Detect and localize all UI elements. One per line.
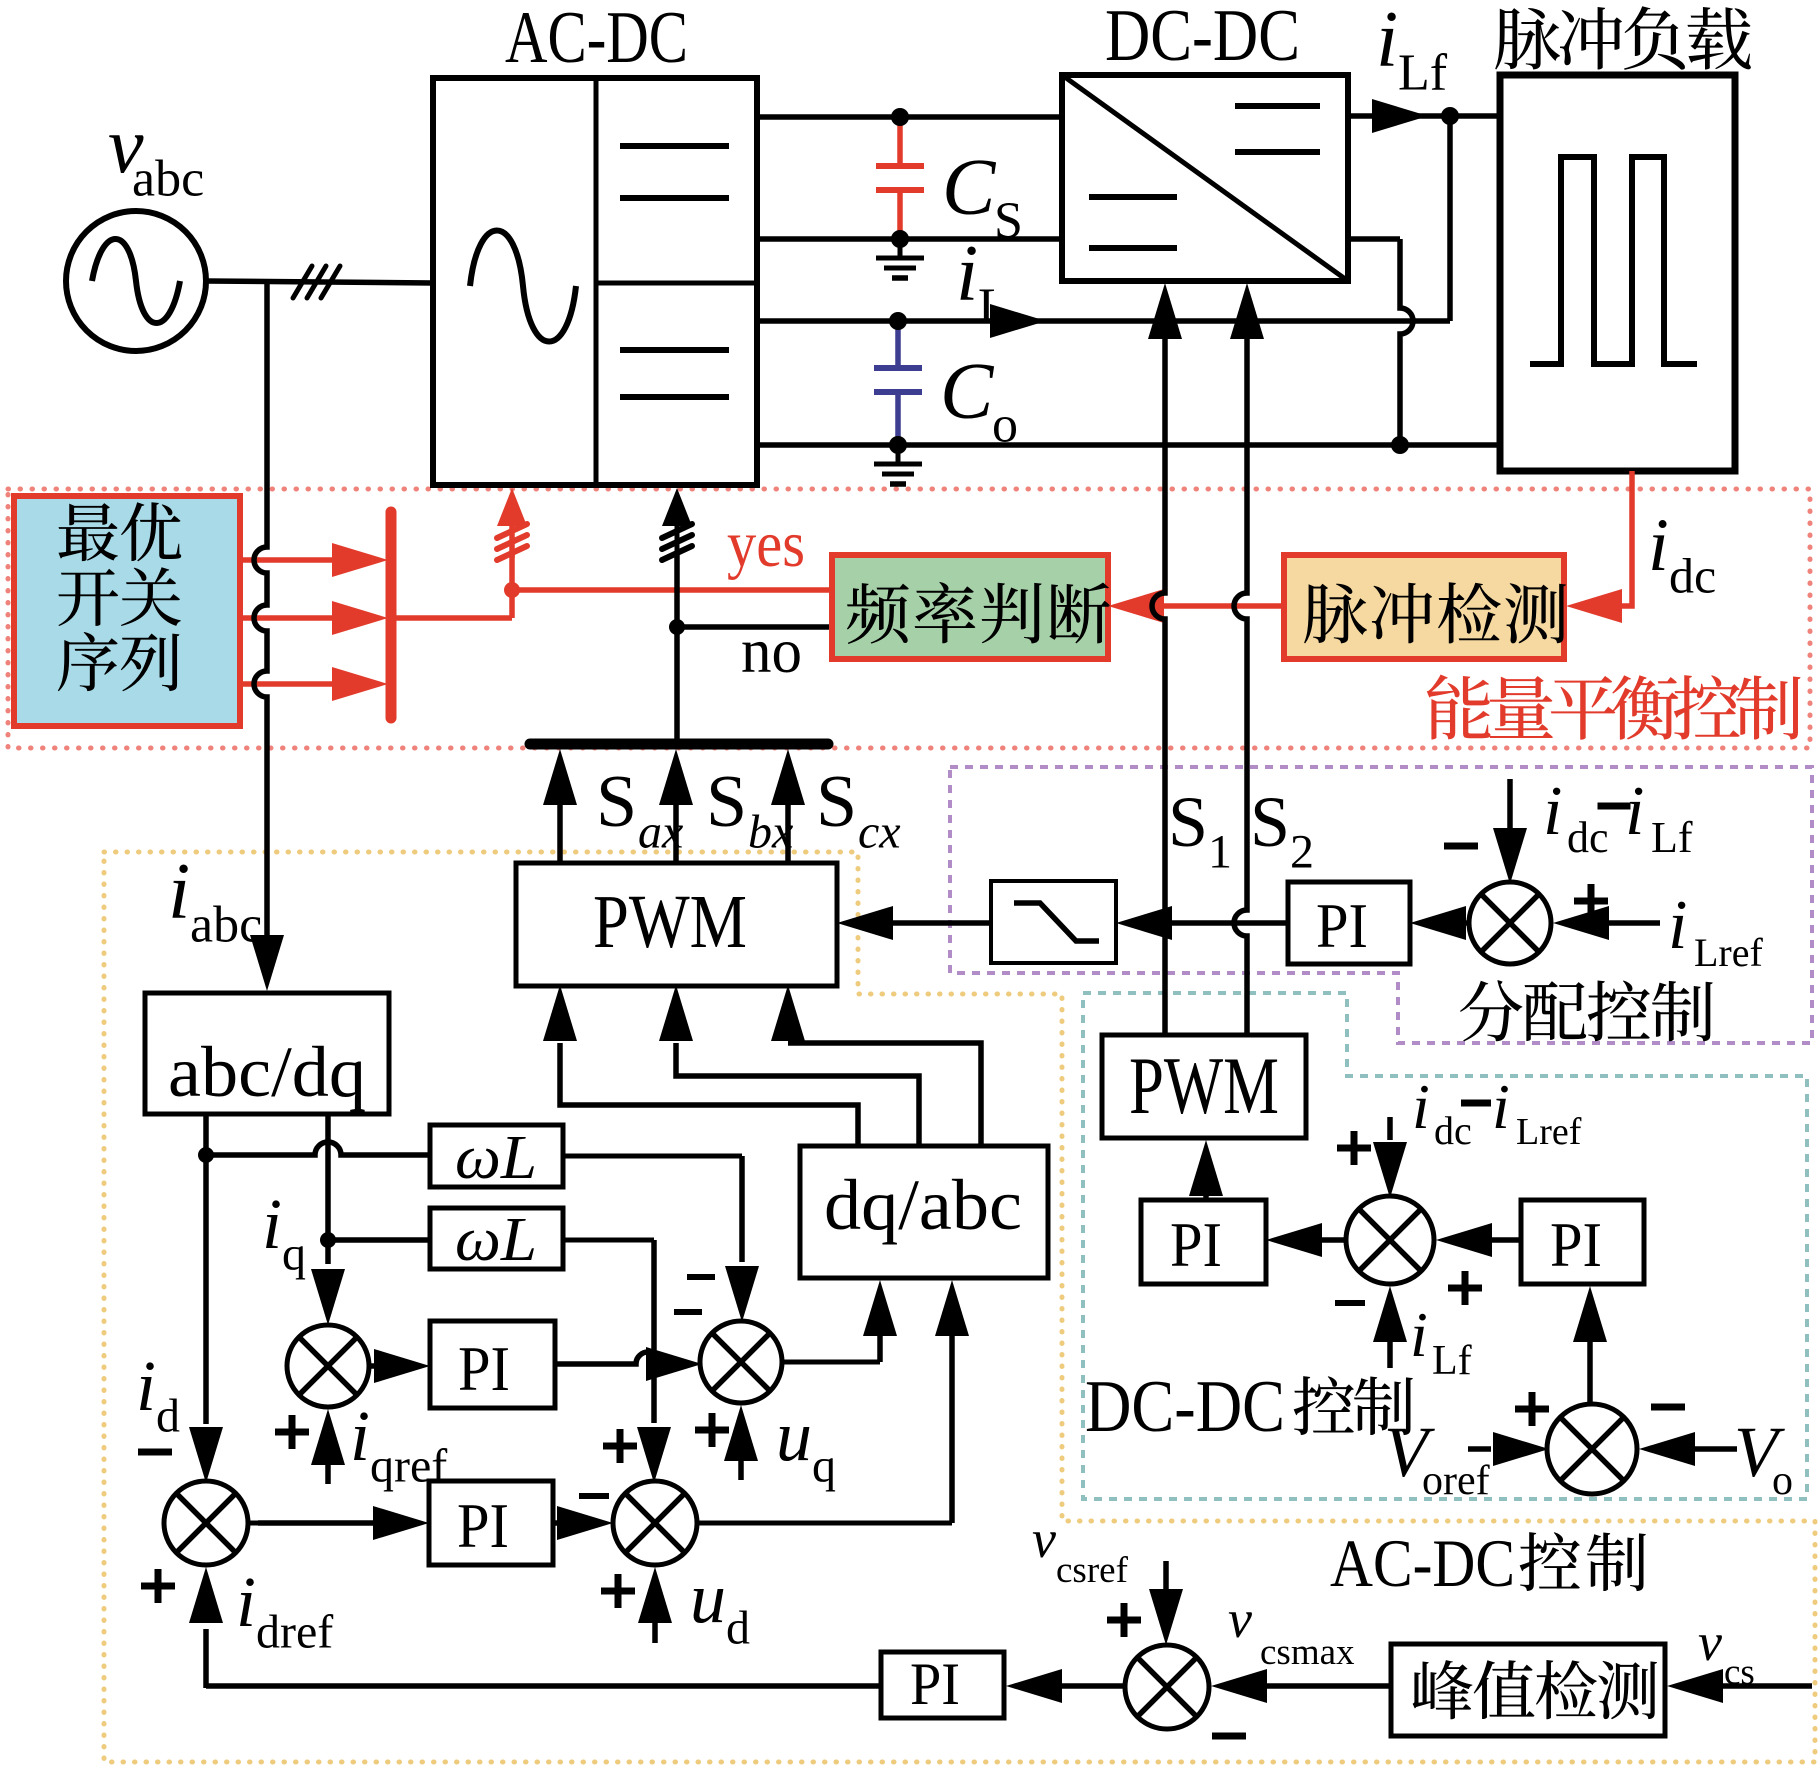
arrow red gate a	[332, 543, 388, 577]
wire PI_q to uq sum with hop	[555, 1352, 660, 1364]
wire i_Lf stub sum2	[1387, 1340, 1393, 1368]
svg-text:PWM: PWM	[593, 880, 747, 964]
svg-text:dc: dc	[1434, 1108, 1472, 1153]
wire u_q stub	[738, 1458, 744, 1480]
arrow sum4 into PI	[1006, 1669, 1062, 1703]
energy balance control region (red dashed box)	[8, 489, 1810, 748]
wire dq/abc out a	[560, 1043, 858, 1146]
AC-DC control region (yellow dashed box)	[104, 852, 1815, 1762]
wire i_dc from load	[1622, 471, 1632, 606]
wire black gate vertical	[674, 554, 680, 739]
distribution control region (purple dashed box)	[950, 767, 1812, 1043]
arrow sum2 to PI	[1266, 1223, 1322, 1257]
svg-text:abc: abc	[132, 150, 204, 207]
svg-text:S: S	[816, 761, 857, 843]
label minus uq top	[687, 1274, 715, 1280]
PI block d loop	[429, 1481, 553, 1565]
svg-text:cs: cs	[1724, 1652, 1755, 1693]
svg-text:S: S	[994, 192, 1023, 249]
wire sum_uq to dq/abc	[782, 1360, 880, 1365]
svg-text:abc: abc	[190, 896, 262, 953]
arrow red gate c	[332, 667, 388, 701]
arrow into PI_d	[373, 1506, 429, 1540]
svg-text:AC-DC: AC-DC	[1330, 1525, 1515, 1601]
three-phase slash marks	[293, 266, 312, 298]
svg-text:v: v	[1032, 1509, 1056, 1569]
arrow into sum2 right	[1436, 1223, 1492, 1257]
wire PI right to sum2	[1490, 1237, 1521, 1243]
arrow omegaL1 into uq sum	[725, 1266, 759, 1322]
svg-text:i: i	[262, 1184, 282, 1264]
svg-text:i: i	[1625, 773, 1644, 850]
arrow into ud sum	[557, 1506, 613, 1540]
arrow V_o into sum3	[1639, 1432, 1695, 1466]
wire DC-DC out to load	[1348, 113, 1500, 119]
svg-text:no: no	[741, 615, 802, 686]
svg-text:PI: PI	[1170, 1209, 1222, 1280]
svg-text:i: i	[136, 1346, 156, 1426]
wire u_d stub	[652, 1621, 658, 1643]
frequency judge block (pin lv pan duan)	[832, 555, 1108, 659]
arrow v_cs into peak detect	[1667, 1669, 1723, 1703]
svg-text:PWM: PWM	[1129, 1040, 1279, 1131]
svg-text:S: S	[1168, 782, 1208, 862]
svg-text:cx: cx	[858, 806, 901, 859]
arrow sum_ud into dq/abc	[935, 1280, 969, 1336]
red gate bus bar	[386, 512, 397, 718]
svg-text:u: u	[776, 1396, 812, 1476]
wire sum1 to PI	[1466, 920, 1469, 926]
label pulse load (mai chong fu zai)	[1495, 8, 1560, 69]
svg-text:dref: dref	[256, 1606, 333, 1659]
svg-text:i: i	[236, 1562, 256, 1642]
abc/dq block	[145, 993, 389, 1114]
wire PI_d to ud sum	[553, 1520, 560, 1526]
wire sum3 to PI right	[1587, 1342, 1593, 1404]
arrow PI to PWM2	[1189, 1140, 1223, 1196]
capacitor C_S	[897, 117, 903, 166]
wire AC-DC out 2 (C_S return)	[757, 236, 1062, 242]
wire i_abc with hops	[254, 283, 267, 936]
arrow i_Lf into sum2	[1373, 1286, 1407, 1342]
arrow i_qref into sum_q	[311, 1409, 345, 1465]
arrow black gate into AC-DC	[662, 488, 692, 526]
arrow into sum2 top	[1373, 1142, 1407, 1198]
label energy balance control (neng liang ping heng kong zhi)	[1427, 675, 1491, 740]
svg-text:u: u	[690, 1558, 726, 1638]
node dot C_S top	[891, 108, 909, 126]
label minus sum2 bottom	[1335, 1300, 1365, 1306]
ground under C_o	[896, 445, 901, 464]
red gate squiggle	[509, 520, 515, 558]
wire omegaL2 to ud sum	[563, 1238, 654, 1243]
svg-text:i: i	[956, 230, 978, 318]
svg-text:i: i	[1668, 887, 1687, 964]
label minus ud left	[579, 1493, 609, 1499]
label minus uq left	[674, 1309, 702, 1315]
svg-text:PI: PI	[1316, 890, 1368, 961]
svg-text:S: S	[706, 761, 747, 843]
PI block voltage loop	[881, 1652, 1004, 1718]
svg-text:DC-DC: DC-DC	[1085, 1366, 1285, 1448]
svg-text:DC-DC: DC-DC	[1105, 0, 1300, 77]
wire V_oref in	[1468, 1446, 1491, 1452]
summing junction sum_d	[164, 1481, 248, 1565]
PWM block (DC-DC control)	[1102, 1035, 1306, 1138]
svg-text:i: i	[168, 848, 190, 936]
AC source V1 (three-phase grid)	[66, 211, 206, 351]
wire pulse detect to frequency judge	[1164, 603, 1284, 609]
node dot C_S bottom	[891, 230, 909, 248]
svg-text:bx: bx	[748, 806, 793, 859]
wire sum_q to PI_q	[369, 1363, 378, 1369]
summing junction sum2	[1346, 1196, 1434, 1284]
wire red gate line b	[240, 615, 340, 621]
label minus sum_d	[138, 1449, 172, 1456]
arrow Sax into bar	[543, 749, 577, 805]
summing junction sum4	[1125, 1645, 1209, 1729]
omega-L block 1	[430, 1125, 563, 1187]
svg-text:2: 2	[1290, 826, 1314, 879]
svg-text:yes: yes	[727, 508, 805, 581]
arrow i_dref into sum_d	[189, 1567, 223, 1623]
svg-text:i: i	[1543, 773, 1562, 850]
wire i_dc-i_Lf into sum1	[1507, 779, 1513, 845]
arrow out c into PWM	[771, 985, 805, 1041]
DC-DC control region (teal dashed box)	[1083, 993, 1807, 1499]
svg-text:PI: PI	[458, 1333, 510, 1404]
wire i_d to omegaL1 with hop	[206, 1142, 430, 1155]
wire i_d branch	[203, 1114, 209, 1424]
arrow i_L direction	[990, 304, 1046, 338]
node dot C_o bottom	[889, 436, 907, 454]
label plus uq bottom	[695, 1427, 729, 1434]
summing junction sum_ud	[613, 1481, 697, 1565]
wire into sum2 top	[1387, 1117, 1393, 1140]
arrow i_abc into abc/dq	[250, 935, 284, 991]
svg-text:dq/abc: dq/abc	[824, 1165, 1022, 1245]
wire S1	[1152, 336, 1165, 1035]
pulse detect block (mai chong jian ce)	[1284, 555, 1564, 659]
wire red bar to node	[391, 615, 512, 621]
wire v_cs input	[1723, 1683, 1812, 1689]
black gate squiggle	[675, 520, 680, 558]
svg-text:PI: PI	[1550, 1209, 1602, 1280]
arrow i_dc into pulse detect	[1566, 589, 1622, 623]
label plus ud top	[603, 1443, 637, 1450]
arrow red gate into AC-DC	[497, 488, 527, 526]
wire v_csref stub	[1163, 1561, 1169, 1592]
label distribution control (fen pei kong zhi)	[1460, 980, 1523, 1041]
black gate bus bar	[530, 739, 828, 750]
arrow sum1 to PI	[1410, 906, 1466, 940]
wire sum4 to PI	[1060, 1683, 1125, 1689]
arrow sum3 into PI right	[1573, 1286, 1607, 1342]
arrow PI to limiter	[1116, 906, 1172, 940]
wire Scx	[785, 800, 791, 862]
label minus sum3 right	[1651, 1404, 1685, 1411]
arrow V_oref into sum3	[1493, 1432, 1549, 1466]
arrow limiter to PWM	[837, 906, 893, 940]
limiter block	[991, 881, 1116, 963]
ground under C_S	[898, 239, 903, 258]
optimal switching sequence block (zui you kai guan xu lie)	[14, 496, 240, 726]
pulse load block	[1500, 75, 1735, 471]
arrow i_d into sum_d	[189, 1427, 223, 1483]
svg-text:S: S	[596, 761, 637, 843]
PI block (distribution control)	[1288, 882, 1410, 964]
wire Sbx	[673, 800, 679, 862]
svg-text:i: i	[350, 1396, 370, 1476]
node black junction	[669, 619, 685, 635]
svg-text:Lf: Lf	[1398, 44, 1448, 101]
wire peak detect to sum4	[1266, 1683, 1391, 1689]
wire PI to limiter	[1171, 920, 1288, 926]
arrow omegaL2 into ud sum	[637, 1427, 671, 1483]
svg-text:i: i	[1492, 1071, 1510, 1142]
wire omegaL1 to uq sum	[563, 1154, 742, 1159]
svg-text:csref: csref	[1056, 1550, 1129, 1591]
label plus sum_q bottom	[275, 1429, 309, 1436]
label plus sum1	[1574, 898, 1608, 905]
arrow into PI_q	[374, 1349, 430, 1383]
node dot i_d	[198, 1147, 214, 1163]
wire DC-DC return	[1348, 236, 1400, 242]
svg-text:dc: dc	[1567, 813, 1609, 862]
wire red gate line a	[240, 557, 340, 563]
wire red gate line c	[240, 681, 340, 687]
svg-text:dc: dc	[1669, 548, 1716, 604]
arrow red gate b	[332, 601, 388, 635]
label plus ud bottom	[601, 1588, 635, 1595]
node dot i_q	[320, 1232, 336, 1248]
svg-text:C: C	[940, 348, 995, 436]
omega-L block 2	[430, 1208, 563, 1269]
summing junction sum3	[1547, 1404, 1637, 1494]
arrow out a into PWM	[543, 985, 577, 1041]
label minus sum4 bottom	[1212, 1733, 1246, 1740]
svg-text:ωL: ωL	[455, 1124, 537, 1192]
arrow into sum4 right	[1211, 1669, 1267, 1703]
arrow into uq sum	[646, 1347, 702, 1381]
wire dq/abc out b	[676, 1043, 919, 1146]
arrow S1 into DC-DC	[1148, 283, 1182, 339]
wire i_qref stub	[325, 1462, 331, 1484]
node red junction	[504, 582, 520, 598]
wire i_dref feedback up	[203, 1629, 209, 1688]
svg-text:Lf: Lf	[1651, 813, 1693, 862]
svg-text:q: q	[282, 1228, 306, 1281]
arrow v_csref into sum4	[1149, 1589, 1183, 1645]
wire i_L rail up to load node	[1447, 116, 1453, 321]
wire source to AC-DC	[206, 281, 433, 283]
DC-DC converter U2	[1062, 75, 1348, 281]
wire red gate drive up	[509, 554, 515, 590]
svg-text:v: v	[1698, 1612, 1722, 1672]
arrow u_q into sum_uq	[724, 1405, 758, 1461]
node dot C_o top	[889, 312, 907, 330]
label minus sum1	[1444, 843, 1478, 850]
svg-text:Lf: Lf	[1432, 1338, 1472, 1384]
wire sum2 to PI	[1322, 1237, 1346, 1243]
wire limiter to PWM	[893, 920, 991, 926]
svg-text:1: 1	[1208, 826, 1232, 879]
wire V_o in	[1694, 1446, 1737, 1452]
wire bottom return rail	[757, 442, 1500, 448]
label plus sum4 top	[1107, 1617, 1141, 1624]
wire sum_d to PI_d	[248, 1521, 258, 1526]
svg-text:C: C	[942, 144, 997, 232]
svg-text:i: i	[1376, 0, 1398, 84]
wire red yes line to frequency check	[512, 587, 831, 593]
PI block DC-DC right	[1521, 1200, 1644, 1284]
svg-text:v: v	[1228, 1589, 1252, 1649]
wire DC-DC return down with hop	[1400, 239, 1413, 445]
svg-text:d: d	[156, 1390, 180, 1443]
arrow into frequency judge	[1108, 589, 1164, 623]
arrow out b into PWM	[659, 985, 693, 1041]
svg-text:AC-DC: AC-DC	[505, 0, 688, 79]
svg-text:q: q	[812, 1440, 836, 1493]
wire no line to frequency check	[677, 624, 831, 630]
summing junction sum1	[1469, 882, 1551, 964]
node dot return	[1391, 436, 1409, 454]
arrow i_Lf direction	[1372, 99, 1428, 133]
wire i_q to omegaL2	[328, 1237, 430, 1243]
arrow Sbx into bar	[659, 749, 693, 805]
arrow i_q into sum_q	[311, 1269, 345, 1325]
summing junction sum_uq	[700, 1321, 782, 1403]
svg-text:oref: oref	[1422, 1458, 1490, 1504]
arrow into sum1 top	[1493, 828, 1527, 884]
node dot load input	[1441, 107, 1459, 125]
wire i_L rail	[757, 318, 1450, 324]
svg-text:d: d	[726, 1602, 750, 1655]
svg-text:i: i	[1648, 504, 1669, 587]
arrow Scx into bar	[771, 749, 805, 805]
AC-DC converter U1	[433, 78, 757, 485]
node junction on input wire	[266, 282, 268, 284]
dq/abc block	[800, 1146, 1048, 1278]
svg-text:qref: qref	[370, 1440, 447, 1493]
svg-text:Lref: Lref	[1516, 1111, 1582, 1153]
arrow S2 into DC-DC	[1230, 283, 1264, 339]
arrow u_d into sum_ud	[638, 1567, 672, 1623]
label plus sum2 right	[1448, 1285, 1482, 1292]
peak detect block (feng zhi jian ce)	[1391, 1644, 1665, 1736]
wire i_Lref into sum1	[1609, 920, 1660, 926]
summing junction sum_q	[287, 1325, 369, 1407]
svg-text:L: L	[978, 278, 1010, 335]
wire PI to i_dref	[206, 1683, 881, 1689]
wire AC-DC out 1 (top dc rail)	[757, 114, 1062, 120]
wire sum_ud to dq/abc	[697, 1521, 952, 1526]
wire Sax	[557, 800, 563, 862]
svg-text:i: i	[1410, 1299, 1428, 1370]
arrow sum_uq into dq/abc	[863, 1280, 897, 1336]
svg-text:i: i	[1412, 1071, 1430, 1142]
wire PI to PWM2	[1203, 1196, 1209, 1200]
svg-text:o: o	[992, 396, 1018, 453]
svg-text:ax: ax	[638, 806, 683, 859]
svg-text:Lref: Lref	[1694, 930, 1764, 975]
wire i_q branch	[325, 1114, 331, 1264]
svg-text:csmax: csmax	[1260, 1632, 1355, 1673]
PI block q loop	[430, 1321, 555, 1408]
svg-text:S: S	[1250, 782, 1290, 862]
capacitor C_o	[895, 321, 901, 368]
svg-text:PI: PI	[910, 1651, 960, 1717]
PI block DC-DC left	[1141, 1200, 1266, 1284]
wire S2	[1234, 336, 1247, 1035]
svg-text:o: o	[1772, 1458, 1793, 1504]
svg-text:PI: PI	[457, 1490, 509, 1561]
svg-text:ωL: ωL	[455, 1206, 537, 1274]
label plus sum_d bottom	[141, 1583, 175, 1590]
label plus sum3 left	[1515, 1406, 1549, 1413]
PWM block (AC-DC control)	[516, 863, 837, 986]
label plus sum2 top	[1337, 1145, 1371, 1152]
svg-text:abc/dq: abc/dq	[168, 1032, 366, 1112]
arrow into sum1 right	[1553, 906, 1609, 940]
wire dq/abc out c	[788, 1043, 981, 1146]
